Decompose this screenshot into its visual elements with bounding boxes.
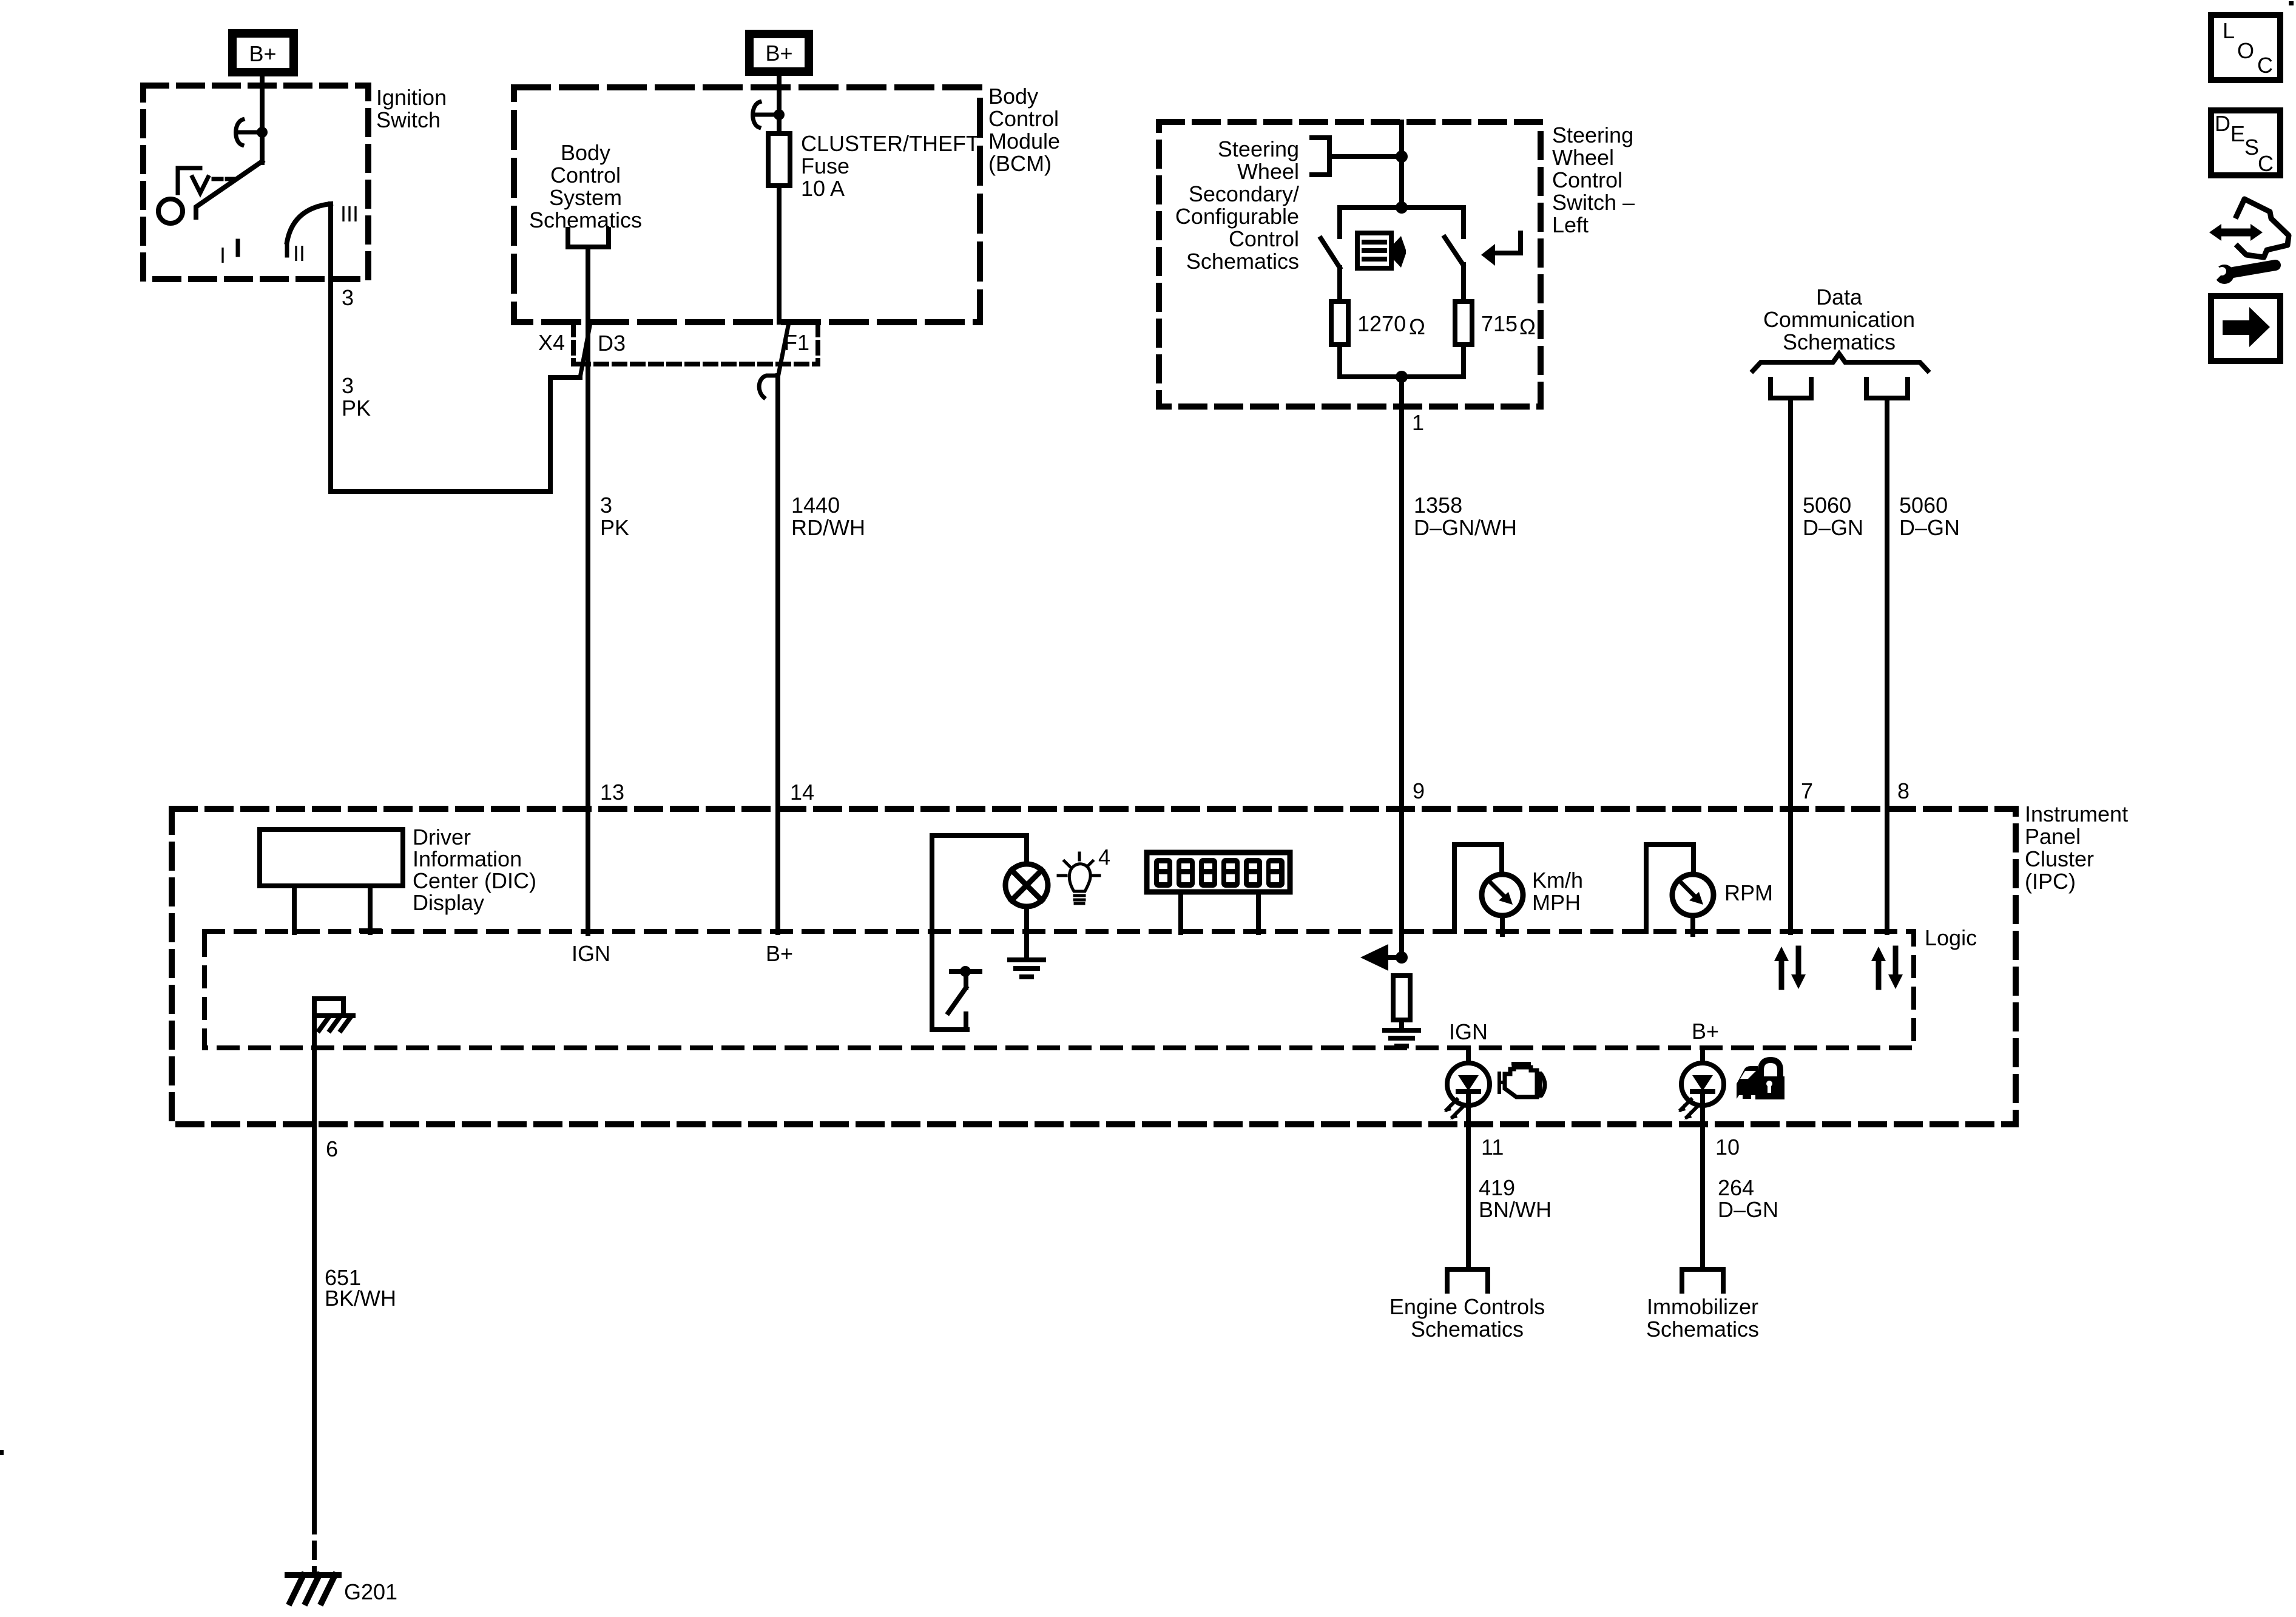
DIC legs [292,886,297,933]
svg-text:MPH: MPH [1532,890,1581,915]
svg-text:Steering: Steering [1218,137,1299,161]
security LED [1681,1063,1724,1106]
connector pass-through diagonal F1 [778,323,789,377]
wire: logic to MIL LED [1466,1048,1471,1268]
svg-text:B+: B+ [765,41,792,66]
svg-text:F1: F1 [784,330,809,355]
svg-text:3: 3 [342,285,354,310]
svg-text:Center (DIC): Center (DIC) [413,868,536,893]
key-lock symbol [178,168,200,193]
svg-text:1440: 1440 [791,493,840,518]
svg-text:C: C [2258,151,2274,176]
wire: steering switch output [1399,377,1404,957]
svg-text:Schematics: Schematics [1646,1317,1759,1342]
svg-text:Schematics: Schematics [1411,1317,1524,1342]
svg-text:System: System [549,185,622,210]
svg-text:Engine Controls: Engine Controls [1389,1294,1545,1319]
svg-text:G201: G201 [344,1579,397,1604]
svg-text:Left: Left [1552,212,1589,237]
bulb icon with rays [1058,853,1099,903]
junction node [1396,201,1408,214]
svg-text:Switch: Switch [376,107,441,132]
svg-text:PK: PK [342,396,371,420]
svg-text:Cluster: Cluster [2025,846,2094,871]
page corner dots [2289,1,2294,5]
svg-text:IGN: IGN [572,941,610,966]
ground (lamp) [1010,960,1044,977]
terminal hook at BCM junction [753,102,760,127]
svg-text:14: 14 [790,780,814,805]
svg-text:PK: PK [600,515,629,540]
lamp feed bracket [932,836,1027,1030]
svg-text:Information: Information [413,846,522,871]
svg-text:Data: Data [1816,285,1863,309]
svg-text:5060: 5060 [1803,493,1851,518]
svg-text:5060: 5060 [1899,493,1948,518]
steering wheel control switch dashed box [1159,122,1541,407]
svg-text:Control: Control [1552,167,1622,192]
tachometer gauge RPM [1646,845,1693,931]
svg-text:10 A: 10 A [801,176,845,201]
off-page reference bracket (steering wheel schematics) [1312,138,1329,175]
wire: B+ into BCM [777,72,782,133]
svg-text:Body: Body [561,140,610,165]
lamp test switch blade [948,988,966,1013]
svg-text:Secondary/: Secondary/ [1189,181,1299,206]
internal ground of DIC (chassis) [314,999,343,1016]
svg-text:B+: B+ [766,941,793,966]
svg-text:1270: 1270 [1357,311,1406,336]
junction node (BCM B+) [774,109,785,120]
svg-text:419: 419 [1479,1175,1515,1200]
svg-text:715: 715 [1481,311,1518,336]
engine icon [1499,1064,1545,1097]
svg-text:Ω: Ω [1409,314,1425,339]
IPC dashed box [172,809,2016,1124]
svg-text:Instrument: Instrument [2025,802,2128,826]
svg-text:D–GN/WH: D–GN/WH [1414,515,1517,540]
svg-text:C: C [2257,53,2273,78]
svg-text:B+: B+ [1692,1019,1719,1044]
svg-text:D3: D3 [598,331,626,356]
resistor 1270 ohm [1331,302,1348,345]
svg-text:CLUSTER/THEFT: CLUSTER/THEFT [801,131,979,156]
bidirectional data arrows (bus 2) [1871,947,1903,989]
position I tick [236,241,240,255]
off-page reference (immobilizer) [1682,1269,1723,1291]
svg-text:D–GN: D–GN [1899,515,1960,540]
wire: fuse to connector F1 [777,186,782,322]
ignition switch terminal circle [158,199,183,223]
lamp test switch pivot bar [951,969,980,974]
svg-text:E: E [2230,121,2245,146]
svg-text:1358: 1358 [1414,493,1462,518]
svg-text:Control: Control [1229,226,1299,251]
dashed wire to G201 [312,1517,317,1571]
junction node bottom [1396,371,1408,383]
wire: ignition III contact down [328,204,333,491]
svg-text:10: 10 [1715,1135,1740,1160]
svg-text:III: III [340,201,359,226]
volume icon (list + speaker) [1357,233,1406,268]
svg-text:D–GN: D–GN [1718,1197,1778,1222]
pull-down resistor [1393,976,1410,1020]
brace [1753,354,1928,371]
svg-text:Panel: Panel [2025,824,2081,849]
wire 9 junction with direction arrow [1396,951,1408,964]
svg-text:Driver: Driver [413,825,471,849]
svg-text:Control: Control [988,106,1059,131]
LED emission arrows [1681,1099,1697,1117]
svg-text:Schematics: Schematics [529,208,642,232]
position II tick and arc to III [285,242,289,255]
left switch (volume) [1337,208,1342,237]
wire: data bus 2 to IPC pin 8 [1885,398,1889,933]
svg-text:Module: Module [988,129,1060,154]
svg-text:3: 3 [342,373,354,398]
off-page reference (data bus 2) [1866,379,1908,398]
svg-text:L: L [2223,18,2235,43]
wire: run to BCM connector [331,377,580,491]
wire: box top down [1399,122,1404,208]
BCM dashed box [514,87,980,322]
off-page reference (engine controls) [1447,1269,1488,1291]
junction node [1396,150,1408,163]
ignition switch dashed box [143,86,368,279]
connector pass-through diagonal X4/D3 [580,323,590,377]
svg-text:D–GN: D–GN [1803,515,1863,540]
ignition switch blade [196,161,262,217]
junction node (ignition) [257,127,268,138]
ground (wire 9) [1385,1030,1419,1046]
svg-text:(IPC): (IPC) [2025,869,2076,894]
svg-text:13: 13 [600,780,624,805]
speedometer gauge Km/h MPH [1454,845,1502,931]
MIL LED [1447,1063,1490,1106]
svg-text:Control: Control [550,163,621,187]
wire: ground 651 down [312,999,317,1517]
DIC display box [260,829,403,886]
DESC icon box [2211,110,2280,176]
terminal hook below F1 [759,376,778,397]
logic inner dashed box [204,931,1914,1048]
svg-text:BK/WH: BK/WH [325,1286,396,1311]
svg-text:X4: X4 [538,330,565,355]
svg-text:Configurable: Configurable [1175,204,1299,229]
LED emission arrows [1447,1099,1463,1117]
B+ power terminal (BCM feed) [749,34,809,72]
wire: data bus 1 to IPC pin 7 [1788,398,1793,933]
B+ power terminal (ignition switch feed) [232,33,294,72]
seek icon (previous-track arrow) [1481,233,1521,266]
go-to arrow icon box [2211,296,2280,361]
right switch (seek) [1461,208,1466,237]
BCM connector strip [573,324,818,364]
svg-text:1: 1 [1412,410,1424,435]
bidirectional data arrows (bus 1) [1774,947,1806,989]
svg-text:D: D [2215,111,2230,136]
svg-text:Schematics: Schematics [1186,249,1299,274]
top rail of switch pair [1340,205,1464,210]
svg-text:11: 11 [1481,1135,1504,1160]
svg-text:Communication: Communication [1763,307,1915,332]
lamp (circle with X) [1005,864,1048,906]
svg-text:Steering: Steering [1552,123,1633,147]
terminal hook at ignition junction [236,120,243,145]
svg-text:Fuse: Fuse [801,154,849,178]
svg-text:4: 4 [1098,845,1110,869]
resistor 715 ohm [1455,302,1472,345]
wire: B+ to ignition switch junction [260,72,265,163]
svg-text:9: 9 [1413,778,1425,803]
svg-text:(BCM): (BCM) [988,151,1052,176]
svg-text:6: 6 [326,1136,338,1161]
odometer 7-segment display [1147,852,1290,933]
svg-text:264: 264 [1718,1175,1754,1200]
wire: F1 down to IPC pin 14 [775,376,780,933]
svg-text:7: 7 [1801,778,1813,803]
svg-text:Logic: Logic [1925,925,1977,950]
svg-text:RD/WH: RD/WH [791,515,865,540]
svg-text:Km/h: Km/h [1532,868,1583,893]
service/repair icon (arrow, outline, wrench) [2209,199,2289,284]
bottom rail [1340,374,1464,379]
wire: BCM internal to connector D3 [586,247,590,934]
svg-text:Ignition: Ignition [376,85,447,110]
svg-text:S: S [2244,135,2259,160]
off-page reference (Body Control System Schematics) [568,229,609,247]
ground G201 [288,1575,339,1602]
svg-text:IGN: IGN [1449,1019,1488,1044]
wire: lamp to ground [1024,906,1029,960]
svg-text:BN/WH: BN/WH [1479,1197,1551,1222]
svg-text:Display: Display [413,890,484,915]
wire: logic to security LED [1700,1048,1705,1268]
car with lock icon [1737,1060,1784,1099]
svg-text:I: I [220,243,226,268]
lamp test switch contact [964,1014,968,1030]
svg-text:Wheel: Wheel [1237,159,1299,184]
svg-text:Immobilizer: Immobilizer [1647,1294,1758,1319]
svg-text:II: II [293,241,305,266]
svg-text:B+: B+ [249,41,276,66]
svg-text:3: 3 [600,493,612,518]
svg-text:Switch –: Switch – [1552,190,1635,215]
fuse CLUSTER/THEFT 10A [768,133,790,186]
svg-text:Wheel: Wheel [1552,145,1614,170]
svg-text:Ω: Ω [1519,314,1536,339]
off-page reference (data bus 1) [1771,379,1811,398]
svg-text:O: O [2237,38,2254,63]
LOC icon box [2211,15,2280,80]
svg-text:8: 8 [1897,778,1909,803]
svg-text:RPM: RPM [1724,880,1773,905]
svg-text:Body: Body [988,84,1038,109]
